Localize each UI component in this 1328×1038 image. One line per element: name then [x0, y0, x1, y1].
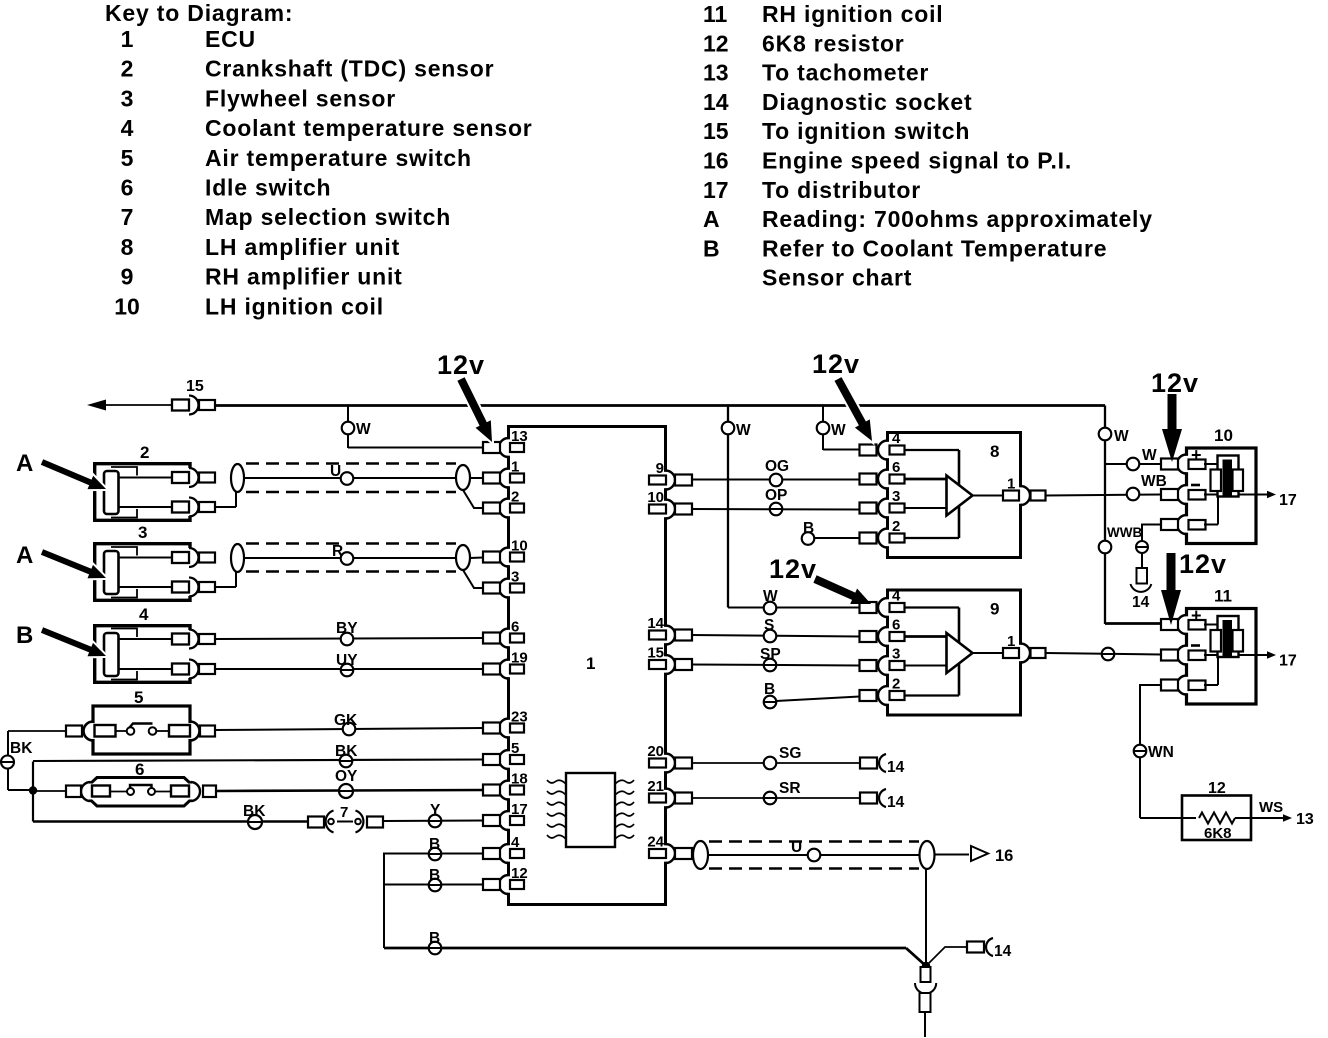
svg-text:Crankshaft (TDC) sensor: Crankshaft (TDC) sensor [205, 56, 494, 82]
svg-text:B: B [703, 235, 720, 261]
svg-text:17: 17 [1279, 492, 1297, 509]
svg-text:16: 16 [995, 847, 1013, 865]
svg-text:10: 10 [114, 293, 140, 319]
svg-text:14: 14 [887, 794, 905, 811]
svg-text:23: 23 [511, 709, 528, 726]
svg-text:19: 19 [511, 650, 528, 667]
svg-text:LH amplifier unit: LH amplifier unit [205, 234, 400, 260]
svg-text:Refer to Coolant Temperature: Refer to Coolant Temperature [762, 235, 1107, 261]
svg-text:17: 17 [703, 177, 729, 203]
svg-text:12: 12 [511, 865, 528, 882]
svg-text:1: 1 [586, 654, 595, 673]
svg-text:Flywheel sensor: Flywheel sensor [205, 85, 396, 111]
svg-text:18: 18 [511, 771, 528, 788]
svg-text:A: A [703, 206, 720, 232]
svg-text:13: 13 [511, 428, 528, 445]
svg-text:7: 7 [340, 804, 348, 821]
svg-text:W: W [831, 422, 846, 439]
svg-text:24: 24 [647, 834, 664, 851]
svg-text:ECU: ECU [205, 26, 256, 52]
svg-text:3: 3 [138, 523, 147, 542]
svg-text:UY: UY [336, 652, 358, 669]
svg-text:1: 1 [1007, 633, 1015, 650]
svg-text:7: 7 [121, 204, 134, 230]
svg-text:SP: SP [760, 646, 781, 663]
svg-text:Air temperature switch: Air temperature switch [205, 145, 472, 171]
svg-text:2: 2 [511, 489, 519, 506]
svg-text:11: 11 [703, 1, 728, 27]
svg-text:5: 5 [134, 688, 143, 707]
svg-text:Coolant temperature sensor: Coolant temperature sensor [205, 115, 533, 141]
svg-text:W: W [356, 421, 371, 438]
svg-text:6: 6 [892, 459, 900, 476]
svg-text:To ignition switch: To ignition switch [762, 118, 970, 144]
svg-text:21: 21 [647, 778, 664, 795]
svg-text:BK: BK [243, 803, 266, 820]
svg-text:12: 12 [703, 30, 729, 56]
svg-text:OY: OY [335, 768, 358, 785]
svg-text:3: 3 [511, 569, 519, 586]
svg-text:B: B [764, 681, 775, 698]
svg-text:2: 2 [892, 518, 900, 535]
svg-text:U: U [330, 463, 341, 480]
svg-text:14: 14 [887, 759, 905, 776]
svg-text:10: 10 [647, 489, 664, 506]
svg-text:6K8: 6K8 [1204, 825, 1232, 842]
svg-text:2: 2 [121, 56, 134, 82]
svg-text:17: 17 [511, 801, 528, 818]
svg-text:Y: Y [430, 802, 441, 819]
svg-text:BY: BY [336, 620, 358, 637]
svg-text:4: 4 [892, 430, 901, 447]
svg-text:+: + [1191, 445, 1202, 465]
svg-text:W: W [736, 422, 751, 439]
svg-text:W: W [763, 588, 778, 605]
svg-text:Idle switch: Idle switch [205, 175, 331, 201]
svg-text:BK: BK [335, 743, 358, 760]
svg-text:To distributor: To distributor [762, 177, 921, 203]
svg-text:9: 9 [121, 264, 134, 290]
svg-text:W: W [1142, 447, 1157, 464]
svg-text:WB: WB [1141, 473, 1167, 490]
svg-text:R: R [332, 543, 343, 560]
svg-text:6K8 resistor: 6K8 resistor [762, 30, 905, 56]
svg-text:16: 16 [703, 148, 729, 174]
svg-text:12v: 12v [1151, 368, 1199, 398]
svg-text:W: W [1114, 428, 1129, 445]
svg-text:12v: 12v [812, 349, 860, 379]
svg-text:9: 9 [990, 600, 999, 619]
svg-text:SG: SG [779, 745, 801, 762]
svg-text:Map selection switch: Map selection switch [205, 204, 451, 230]
svg-text:15: 15 [186, 378, 204, 395]
svg-text:Engine speed signal to P.I.: Engine speed signal to P.I. [762, 148, 1072, 174]
svg-text:12v: 12v [437, 350, 485, 380]
svg-text:S: S [764, 617, 774, 634]
svg-text:LH ignition coil: LH ignition coil [205, 293, 384, 319]
svg-text:RH amplifier unit: RH amplifier unit [205, 264, 403, 290]
svg-text:Reading: 700ohms approximately: Reading: 700ohms approximately [762, 206, 1153, 232]
svg-text:4: 4 [139, 605, 149, 624]
svg-text:GK: GK [334, 712, 358, 729]
svg-text:RH ignition coil: RH ignition coil [762, 1, 943, 27]
svg-text:6: 6 [135, 760, 144, 779]
svg-text:B: B [16, 622, 33, 649]
svg-text:1: 1 [1007, 476, 1015, 493]
svg-text:6: 6 [121, 175, 134, 201]
svg-text:OG: OG [765, 458, 789, 475]
svg-text:WWB: WWB [1107, 525, 1142, 540]
svg-text:4: 4 [511, 834, 520, 851]
svg-text:B: B [429, 867, 440, 884]
svg-text:B: B [429, 836, 440, 853]
svg-text:A: A [16, 450, 33, 477]
svg-text:13: 13 [703, 60, 729, 86]
svg-text:6: 6 [892, 617, 900, 634]
svg-text:15: 15 [647, 645, 664, 662]
svg-text:Key to Diagram:: Key to Diagram: [105, 0, 293, 26]
svg-text:14: 14 [703, 89, 729, 115]
svg-text:11: 11 [1214, 587, 1232, 606]
svg-text:12v: 12v [1179, 549, 1227, 579]
svg-text:1: 1 [511, 459, 519, 476]
svg-text:9: 9 [656, 460, 664, 477]
svg-text:14: 14 [1132, 594, 1150, 611]
svg-text:1: 1 [121, 26, 134, 52]
svg-text:13: 13 [1296, 811, 1314, 828]
svg-text:5: 5 [511, 740, 519, 757]
svg-text:14: 14 [994, 943, 1012, 960]
svg-text:8: 8 [990, 442, 999, 461]
svg-text:8: 8 [121, 234, 134, 260]
svg-text:14: 14 [647, 615, 664, 632]
svg-text:SR: SR [779, 780, 801, 797]
svg-text:BK: BK [10, 740, 33, 757]
svg-text:12v: 12v [769, 554, 817, 584]
svg-text:10: 10 [1214, 426, 1233, 445]
svg-text:4: 4 [121, 115, 134, 141]
svg-text:OP: OP [765, 487, 787, 504]
svg-text:5: 5 [121, 145, 134, 171]
svg-text:B: B [803, 520, 814, 537]
svg-text:20: 20 [647, 743, 664, 760]
svg-text:6: 6 [511, 619, 519, 636]
svg-text:+: + [1191, 606, 1202, 626]
svg-text:To tachometer: To tachometer [762, 60, 929, 86]
svg-text:4: 4 [892, 588, 901, 605]
svg-text:3: 3 [892, 488, 900, 505]
svg-text:2: 2 [892, 676, 900, 693]
svg-text:17: 17 [1279, 653, 1297, 670]
svg-text:A: A [16, 542, 33, 569]
svg-text:15: 15 [703, 118, 729, 144]
svg-text:Diagnostic socket: Diagnostic socket [762, 89, 972, 115]
svg-text:WN: WN [1148, 744, 1174, 761]
svg-text:B: B [429, 930, 440, 947]
svg-text:12: 12 [1208, 780, 1226, 797]
svg-text:10: 10 [511, 538, 528, 555]
svg-text:3: 3 [892, 646, 900, 663]
svg-text:WS: WS [1259, 799, 1283, 816]
svg-text:2: 2 [140, 443, 149, 462]
svg-text:Sensor chart: Sensor chart [762, 265, 912, 291]
svg-text:3: 3 [121, 85, 134, 111]
